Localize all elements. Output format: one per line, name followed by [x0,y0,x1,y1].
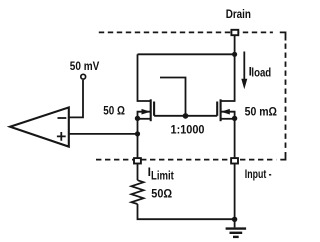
wire: left source/body node down to limit terminal [137,119,139,159]
wire: drain terminal to top rail [234,35,236,54]
node: ground junction [232,217,237,222]
wire: right FET drain lead [221,54,235,101]
node: op-amp + input junction [135,131,140,136]
terminal: Input- (square) [231,158,238,163]
resistor R1 50 ohm [131,180,143,204]
node: drain junction [232,52,237,57]
terminal: 50mV source (circle) [81,74,86,79]
svg-text:50 mΩ: 50 mΩ [245,105,278,119]
terminal: Drain (square) [231,30,238,35]
wire: input- terminal down to ground rail [234,163,236,219]
node: gate junction [183,113,189,119]
svg-text:50 Ω: 50 Ω [103,104,125,118]
node: right FET source/body [232,116,237,121]
dashed IC boundary box [96,32,286,159]
wire: op-amp inverting input to 50mV source [69,80,83,117]
svg-text:50Ω: 50Ω [151,186,172,200]
wire: op-amp non-inverting input to left source node [69,133,138,135]
svg-text:50 mV: 50 mV [70,59,100,73]
svg-text:load: load [251,68,271,80]
svg-text:Limit: Limit [151,168,174,182]
wire: top rail connecting both FET drains [138,53,235,55]
wire: limit terminal to resistor [137,163,139,180]
transistor Q1 (sense FET, 50 ohm) [138,99,155,121]
op-amp U1 [10,107,69,146]
terminal: ILimit (square) [134,158,141,163]
wire: left FET drain lead [138,54,151,101]
wire: gate interconnect [154,115,217,117]
node: left FET source/body [135,116,140,121]
ground [226,219,247,237]
svg-text:1:1000: 1:1000 [171,122,205,136]
wire: resistor bottom to ground rail [138,204,235,219]
svg-text:Drain: Drain [226,7,251,21]
Iload current arrow [241,52,247,90]
wire: right source/body node down to input- terminal [234,119,236,159]
transistor Q2 (power FET, 50 mohm) [217,99,234,121]
wire: gate drive stub [160,78,186,116]
svg-text:Input -: Input - [245,167,272,181]
